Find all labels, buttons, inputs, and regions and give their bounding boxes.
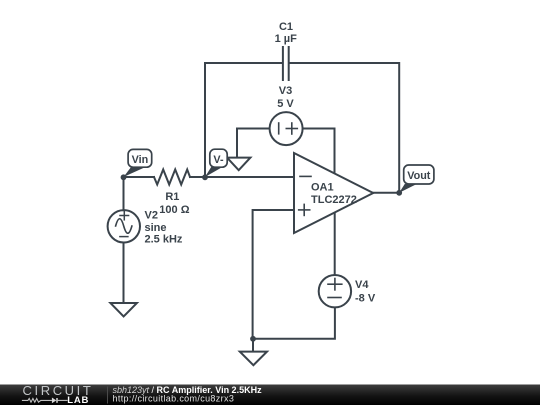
label V4 <box>355 279 369 291</box>
label -8 V <box>355 292 376 304</box>
label 5 V <box>277 98 294 110</box>
svg-text:TLC2272: TLC2272 <box>311 194 357 206</box>
wire op-amp output to Vout junction <box>373 192 399 194</box>
label R1 <box>165 191 179 203</box>
svg-text:100 Ω: 100 Ω <box>159 204 189 216</box>
wire V3 minus terminal to ground stub <box>237 129 269 158</box>
label 2.5 kHz <box>145 234 183 246</box>
CircuitLab logo wordmark CIRCUIT <box>23 383 94 398</box>
node V- junction dot <box>202 174 208 180</box>
CircuitLab logo wordmark LAB <box>67 395 89 405</box>
wire Vin junction to R1 <box>124 176 155 178</box>
label 100 Ohm <box>159 204 189 216</box>
label OA1 <box>311 182 334 194</box>
node label V- <box>205 149 227 177</box>
label sine <box>145 222 167 234</box>
svg-text:5 V: 5 V <box>277 98 294 110</box>
svg-text:2.5 kHz: 2.5 kHz <box>145 234 183 246</box>
footer divider <box>107 387 109 404</box>
wire V3 plus terminal to op-amp positive supply pin <box>303 129 335 174</box>
footer title line <box>113 385 263 395</box>
svg-text:C1: C1 <box>279 21 293 33</box>
svg-text:OA1: OA1 <box>311 182 334 194</box>
wire op-amp negative supply pin down to V4 <box>334 213 336 275</box>
label 1 uF <box>275 33 298 45</box>
ground (below V2) <box>110 303 136 317</box>
svg-text:sine: sine <box>145 222 167 234</box>
voltage source V2 (sine) <box>108 210 140 242</box>
CircuitLab logo resistor zigzag underline <box>22 399 52 403</box>
op-amp OA1 triangle <box>294 153 373 233</box>
op-amp non-inverting input mark <box>299 204 310 215</box>
svg-text:http://circuitlab.com/cu8zrx3: http://circuitlab.com/cu8zrx3 <box>113 394 235 404</box>
op-amp inverting input mark <box>300 175 311 177</box>
svg-text:LAB: LAB <box>67 395 89 405</box>
CircuitLab logo diode symbol <box>52 398 68 404</box>
node label Vout <box>399 165 434 193</box>
label C1 <box>279 21 293 33</box>
svg-text:Vout: Vout <box>407 170 431 182</box>
wire junction down to ground <box>252 339 254 352</box>
footer url line <box>113 394 235 404</box>
svg-text:V-: V- <box>213 154 224 166</box>
capacitor C1 <box>283 47 289 80</box>
svg-text:R1: R1 <box>165 191 179 203</box>
voltage source V3 <box>270 112 303 145</box>
voltage source V4 <box>319 275 351 307</box>
wire V4 minus terminal down and left to ground junction <box>253 308 335 339</box>
svg-text:V3: V3 <box>279 85 292 97</box>
node Vin junction dot <box>121 174 127 180</box>
wire R1 to V- junction to op-amp inverting input <box>190 176 294 178</box>
wire op-amp non-inverting input left and down <box>253 210 294 339</box>
resistor R1 <box>154 170 190 185</box>
ground (V3 negative) <box>227 158 250 171</box>
svg-text:Vin: Vin <box>132 154 149 166</box>
node ground junction dot <box>250 336 256 342</box>
svg-text:V2: V2 <box>145 209 158 221</box>
node label Vin <box>124 149 152 177</box>
svg-text:V4: V4 <box>355 279 369 291</box>
footer bar <box>0 385 540 405</box>
svg-text:-8 V: -8 V <box>355 292 376 304</box>
svg-text:1 µF: 1 µF <box>275 33 298 45</box>
ground (main, below V4 loop) <box>240 352 267 366</box>
node Vout junction dot <box>396 190 402 196</box>
wire top-right rail from C1 right plate to output junction <box>290 63 400 193</box>
wire V2 minus terminal down to ground <box>123 243 125 304</box>
wire Vin junction down to V2 plus terminal <box>123 177 125 210</box>
label TLC2272 <box>311 194 357 206</box>
label V2 <box>145 209 158 221</box>
label V3 <box>279 85 292 97</box>
wire top-left rail from V- node up and right to C1 left plate <box>205 63 282 177</box>
